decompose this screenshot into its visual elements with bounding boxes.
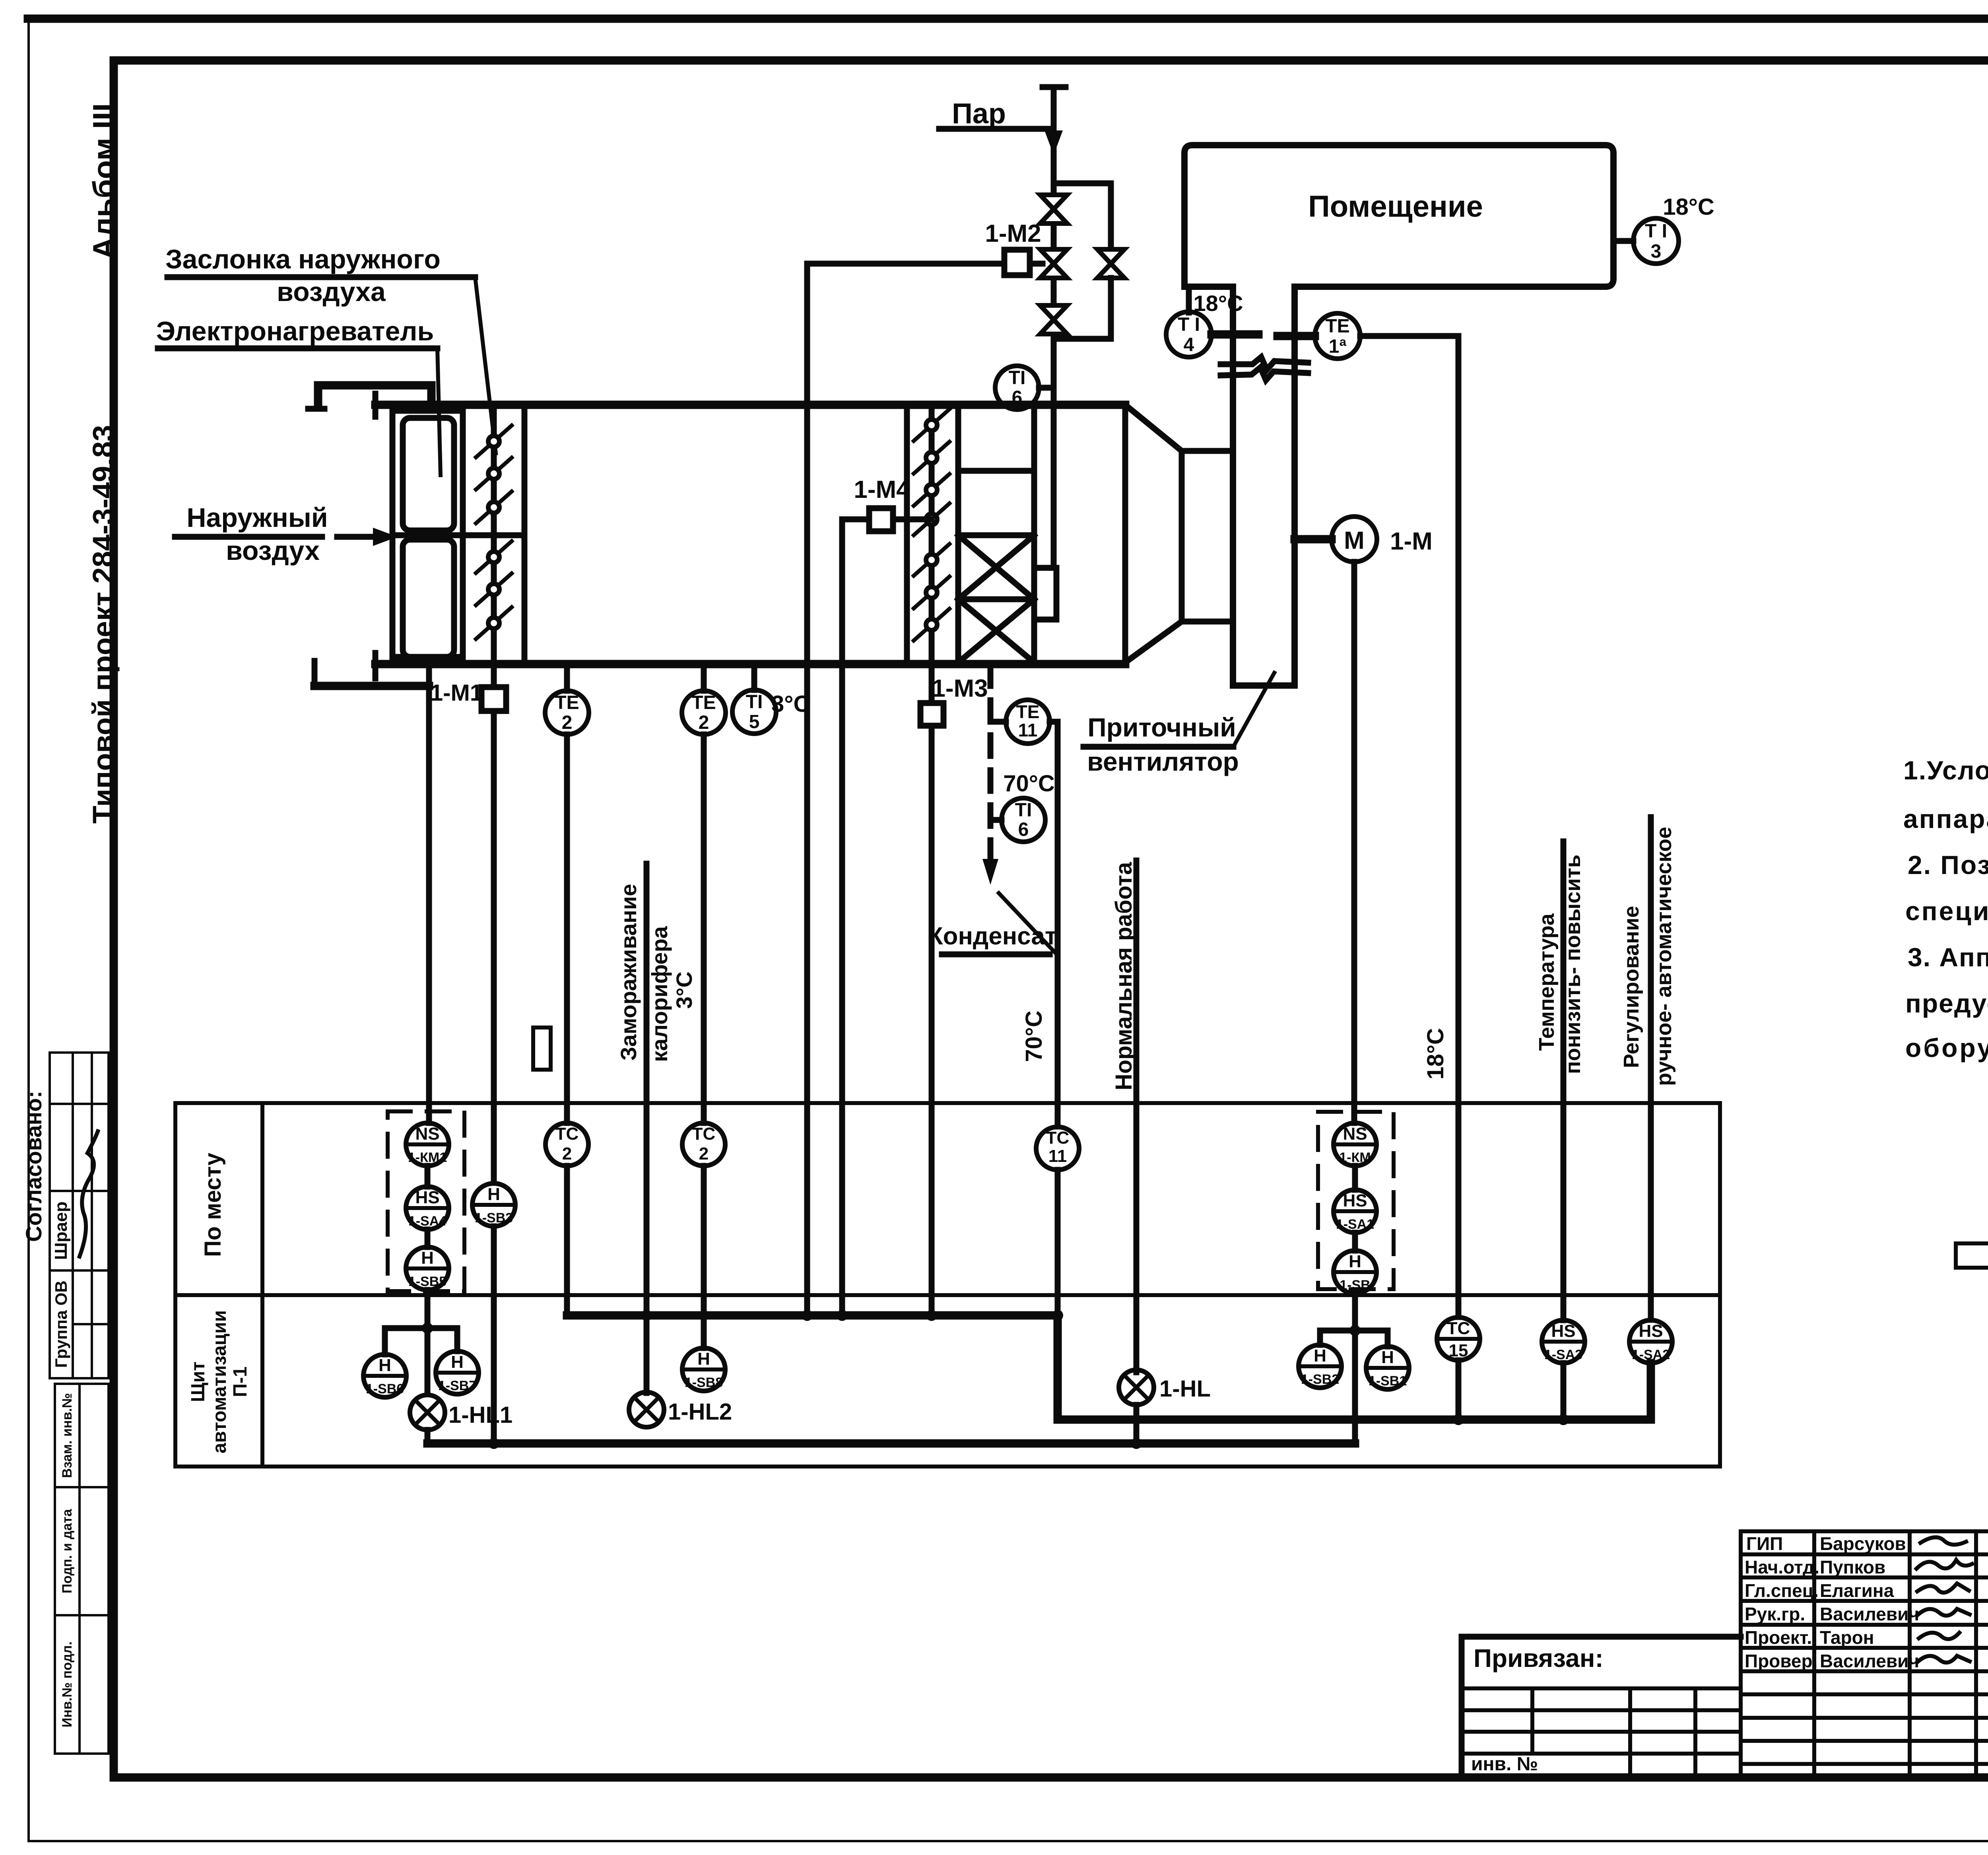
TE-1a probe into duct [1277,332,1315,340]
svg-text:Альбом III: Альбом III [86,103,121,259]
svg-text:2: 2 [562,1144,572,1164]
damper 1 blades [476,425,512,639]
junction dot on control bus [641,1310,652,1321]
bottom flexible connector bracket [315,682,429,690]
svg-text:H: H [421,1248,434,1268]
steam coil crossed box [958,535,1034,662]
placeholder box (filled on project binding) [533,1028,551,1070]
svg-text:5: 5 [749,711,760,732]
thermometer TI-6 (condensate) [990,817,1002,823]
svg-text:T I: T I [1178,314,1200,335]
starter NS 1-KM1 [406,1123,449,1166]
bypass valve [1097,249,1124,278]
sensor TE-2 (freeze protection) [564,664,570,691]
svg-text:1-HL1: 1-HL1 [448,1402,513,1428]
svg-text:спецификации А-С01.: спецификации А-С01. [1905,896,1988,926]
actuator box 1-M2 [1004,250,1030,275]
svg-text:Барсуков: Барсуков [1820,1533,1906,1554]
svg-text:HS: HS [415,1188,439,1207]
label line Температура понизить-повысить [1561,841,1567,1320]
svg-text:TC: TC [692,1124,716,1144]
wire motor to panel [1351,562,1357,1123]
svg-text:Нач.отд.: Нач.отд. [1745,1557,1819,1577]
wire down from 1-SB5 [425,1290,431,1394]
dashed group box 1-KM1 [388,1111,464,1291]
svg-text:2: 2 [562,712,573,733]
margin approval table row lines [50,1103,109,1105]
outdoor air flow arrow [337,534,382,540]
svg-text:Согласовано:: Согласовано: [21,1091,46,1242]
steam coil nozzles [1034,565,1056,571]
switch H 1-SB3 [472,1183,515,1226]
svg-text:H: H [1381,1348,1394,1367]
steam coil right edge [1031,405,1037,662]
label line Замораживание калорифера 3°C [644,864,650,1393]
filter shelf line above steam coil [958,468,1034,474]
lamp 1-HL2 [629,1392,664,1427]
svg-text:1-SB3: 1-SB3 [475,1210,513,1226]
fan motor M 1-M [1295,535,1332,544]
svg-text:1-КМ: 1-КМ [1339,1150,1371,1165]
svg-text:Инв.№ подл.: Инв.№ подл. [60,1641,75,1727]
svg-text:T I: T I [1645,221,1667,242]
svg-text:Регулирование: Регулирование [1619,906,1643,1068]
button H 1-SB8 [682,1348,725,1391]
svg-text:1-SA2: 1-SA2 [1632,1347,1670,1362]
svg-text:1.Условные обозначения приборо: 1.Условные обозначения приборов и электр… [1903,756,1988,785]
svg-text:ручное- автоматическое: ручное- автоматическое [1652,827,1676,1086]
damper 1 section right edge [522,405,528,664]
control bus [567,1315,1651,1420]
svg-text:HS: HS [1551,1321,1575,1341]
svg-text:Заслонка наружного: Заслонка наружного [165,244,441,274]
svg-text:TC: TC [1046,1128,1070,1148]
steam bypass line [1054,181,1111,186]
button H 1-SB6 [363,1354,406,1397]
hand valve V1 [1040,195,1067,223]
svg-text:Провер.: Провер. [1745,1651,1817,1671]
svg-text:TC: TC [555,1124,579,1144]
wire lamp to bottom bus [425,1430,431,1443]
thermometer TI-3 [1613,238,1633,244]
svg-text:Приточный: Приточный [1087,713,1236,742]
sensor TE-2 (3°C) [701,664,707,691]
junction node [422,1323,433,1334]
heater element lower [403,540,454,657]
svg-text:3°C: 3°C [771,691,810,717]
svg-text:Привязан:: Привязан: [1474,1644,1604,1672]
damper actuator 1-M4 [869,508,893,531]
switch TC-15 [1437,1317,1480,1360]
branch to buttons 1-SB2 1-SB1 [1320,1328,1388,1334]
svg-text:1-HL: 1-HL [1159,1376,1211,1402]
label line Нормальная работа [1134,860,1140,1372]
svg-text:1-SB8: 1-SB8 [685,1375,723,1390]
steam pipe [1051,87,1057,568]
svg-text:Рук.гр.: Рук.гр. [1745,1604,1805,1624]
svg-text:TE: TE [1325,316,1349,337]
wire 1-M1 to panel [491,711,497,1183]
svg-text:Замораживание: Замораживание [616,884,641,1061]
svg-text:ГИП: ГИП [1746,1533,1783,1554]
svg-text:1ª: 1ª [1329,336,1347,357]
damper 1 shaft [491,411,497,657]
svg-text:18°C: 18°C [1663,194,1714,220]
svg-text:оборудования: оборудования [1905,1033,1988,1062]
svg-text:70°C: 70°C [1003,771,1055,796]
sensor TE-1a [1315,313,1360,359]
svg-text:1-SB6: 1-SB6 [366,1381,404,1397]
svg-text:1-SB: 1-SB [1340,1278,1370,1293]
TI-4 probe into duct [1211,330,1258,339]
recirculation damper section edges [904,405,910,664]
hand valve V3 [1040,305,1067,334]
thermometer TI-4 [1186,287,1192,313]
switch HS 1-SA2 [1629,1320,1672,1363]
top flexible connector bracket [318,381,431,390]
svg-text:Группа ОВ: Группа ОВ [52,1280,70,1367]
sheet outer border top [28,15,1988,23]
wire 1-M3 to panel [929,726,935,1315]
svg-text:1-КМ1: 1-КМ1 [408,1150,447,1165]
svg-text:Щит: Щит [188,1362,209,1402]
svg-text:Тарон: Тарон [1820,1627,1874,1648]
svg-text:3: 3 [1651,241,1662,262]
svg-text:Типовой проект 284-3-49.83: Типовой проект 284-3-49.83 [87,425,120,824]
switch HS 1-SA1 [1334,1190,1376,1233]
svg-text:Подп. и дата: Подп. и дата [60,1509,75,1593]
svg-text:1-SB1: 1-SB1 [1369,1373,1407,1389]
switch HS 1-SA4 [406,1187,449,1230]
svg-text:1-HL2: 1-HL2 [668,1399,732,1425]
svg-text:18°C: 18°C [1193,291,1243,316]
steam flow arrow [1044,130,1063,155]
svg-text:1-SA4: 1-SA4 [408,1214,447,1229]
leader to electric heater [437,348,441,475]
svg-text:Елагина: Елагина [1820,1580,1894,1601]
svg-text:TE: TE [555,692,579,713]
svg-text:TI: TI [746,691,763,713]
heater section mid line [392,532,524,538]
svg-text:11: 11 [1048,1146,1067,1166]
svg-text:Температура: Температура [1535,913,1559,1051]
heater section box [392,411,463,657]
margin approval signature squiggle [80,1131,98,1257]
wire 1-M2 to panel [807,261,1004,267]
svg-text:инв. №: инв. № [1471,1754,1538,1775]
leader to fan [1233,673,1274,747]
svg-text:HS: HS [1639,1321,1663,1341]
svg-text:TI: TI [1009,367,1026,388]
notes text [1903,756,1988,1062]
svg-text:Взам. инв.№: Взам. инв.№ [60,1393,75,1478]
signature table [1741,1531,1988,1777]
svg-text:1-М3: 1-М3 [932,675,988,702]
wire casing to NS column [426,664,432,686]
svg-text:1-SA3: 1-SA3 [1544,1347,1582,1362]
svg-text:H: H [451,1352,464,1372]
svg-text:1-М1: 1-М1 [430,680,483,706]
inner drawing frame left [110,60,118,1777]
button H 1-SB2 [1299,1345,1342,1388]
signature squiggles [1916,1537,1972,1663]
svg-text:2: 2 [699,712,709,733]
damper 2 shaft [929,405,935,657]
wire TC-2 to control bus [564,1166,570,1315]
svg-text:HS: HS [1343,1191,1367,1210]
svg-text:автоматизации: автоматизации [209,1310,230,1453]
heater element upper [403,418,454,530]
svg-text:Пар: Пар [952,98,1006,130]
svg-text:H: H [379,1356,391,1375]
control valve with actuator 1-M2 [1040,249,1067,278]
svg-text:1-M: 1-M [1390,528,1433,555]
AHU right wall [1122,405,1128,664]
signature table texts [1745,1533,1919,1671]
svg-text:аппаратуры даны по ОСТ 36-2: аппаратуры даны по ОСТ 36-27-77. [1903,804,1988,833]
svg-text:4: 4 [1184,334,1194,355]
switch TC-11 [1036,1127,1079,1170]
svg-text:калорифера: калорифера [647,926,672,1062]
bottom bus (supply) [427,1439,1355,1448]
wire down from 1-SB [1352,1294,1358,1443]
margin lower table divider [78,1384,81,1754]
svg-text:1-М4: 1-М4 [854,476,910,503]
supply fan casing and riser duct [1230,287,1236,686]
svg-text:Электронагреватель: Электронагреватель [156,316,434,346]
svg-text:воздух: воздух [226,536,320,566]
margin lower table box [55,1384,109,1754]
legend placeholder symbol [1956,1243,1988,1268]
svg-text:NS: NS [1343,1124,1367,1144]
svg-text:понизить- повысить: понизить- повысить [1561,855,1585,1074]
button H 1-SB [1334,1251,1376,1294]
svg-text:воздуха: воздуха [277,277,386,307]
svg-text:6: 6 [1012,387,1023,408]
thermometer TI-5 [751,664,757,690]
svg-text:6: 6 [1018,819,1029,840]
svg-text:предусматривается в разделе: предусматривается в разделе электро- [1905,989,1988,1018]
duct break symbol [1221,357,1308,370]
wire TE-2 to TC-2 [564,734,570,1123]
wire TE-11 to TC-11 [1050,719,1058,725]
svg-text:Василевич: Василевич [1820,1604,1919,1624]
button H 1-SB5 [406,1247,449,1290]
switch HS 1-SA3 [1542,1320,1585,1363]
sensor TE-11 [990,719,1006,725]
svg-text:TE: TE [1016,701,1040,722]
wire 1-SB3 to bottom bus [491,1226,497,1443]
panel row divider [175,1293,1720,1297]
wire 1-M4 to panel [842,517,869,523]
svg-text:Пупков: Пупков [1820,1557,1885,1577]
svg-text:По месту: По месту [200,1153,226,1257]
svg-text:18°C: 18°C [1423,1028,1448,1080]
automation panel box [175,1103,1720,1467]
inner drawing frame bottom [114,1773,1988,1782]
svg-text:Помещение: Помещение [1308,190,1483,223]
svg-text:H: H [1349,1252,1361,1271]
condensate capillary dashed line [988,665,994,873]
svg-text:1-SA1: 1-SA1 [1336,1217,1374,1232]
sheet outer border bottom [29,1840,1988,1842]
button H 1-SB7 [436,1351,479,1394]
fan inlet transition [1125,405,1182,451]
AHU top casing line [375,401,1125,409]
button H 1-SB1 [1366,1346,1409,1389]
leader to outdoor air damper [475,277,496,453]
privyazan box [1462,1634,1741,1640]
svg-text:2: 2 [699,1144,709,1164]
svg-text:H: H [487,1185,500,1204]
svg-text:11: 11 [1018,720,1038,740]
switch TC-2 (3°C) [682,1123,725,1166]
switch TC-2 (freeze) [546,1123,588,1166]
damper 2 blades [914,409,949,641]
svg-text:Шраер: Шраер [51,1202,71,1260]
svg-text:2. Позиции приборов указаны: 2. Позиции приборов указаны по [1908,850,1988,880]
svg-text:Гл.спец.: Гл.спец. [1745,1580,1819,1601]
damper actuator 1-M1 [491,657,497,687]
sheet outer border left [27,19,30,1841]
margin lower table row lines [55,1486,109,1488]
branch to buttons 1-SB6 1-SB7 [385,1325,457,1331]
wire TE-1a to panel [1360,333,1458,339]
svg-text:вентилятор: вентилятор [1087,747,1239,776]
margin approval table column dividers [72,1053,74,1378]
svg-text:Василевич: Василевич [1820,1651,1919,1671]
svg-text:1-SB5: 1-SB5 [408,1274,447,1289]
svg-text:M: M [1344,527,1365,554]
svg-text:70°C: 70°C [1021,1010,1047,1062]
label line Регулирование ручное-автоматическое [1648,817,1654,1320]
damper actuator 1-M3 [929,657,935,703]
svg-text:1-М2: 1-М2 [985,220,1041,247]
svg-text:H: H [697,1349,710,1369]
lamp 1-HL [1119,1370,1154,1405]
AHU bottom casing line [375,660,1125,668]
svg-text:1-SB7: 1-SB7 [438,1378,476,1393]
room box Помещение [1184,145,1613,287]
inner drawing frame top [114,56,1988,65]
svg-text:П-1: П-1 [230,1366,251,1397]
wire TE-2 down [701,734,707,1123]
svg-text:TC: TC [1447,1319,1470,1338]
wire TC-2 to button 1-SB8 [701,1166,707,1348]
dashed group box 1-KM [1318,1112,1394,1289]
svg-text:Нормальная работа: Нормальная работа [1111,862,1137,1090]
privyazan sub-table [1462,1688,1741,1777]
starter NS 1-KM [1334,1123,1376,1166]
svg-text:TI: TI [1015,800,1032,821]
margin approval table box [50,1053,109,1378]
svg-text:TE: TE [691,692,716,713]
lamp 1-HL1 [410,1395,445,1430]
panel label column divider [260,1103,264,1467]
svg-text:1-SB2: 1-SB2 [1301,1372,1339,1387]
svg-text:3°C: 3°C [672,971,697,1009]
svg-text:Проект.: Проект. [1745,1627,1812,1648]
svg-text:H: H [1314,1346,1326,1366]
svg-text:NS: NS [415,1124,439,1144]
svg-text:Наружный: Наружный [186,503,328,533]
svg-text:3. Аппаратура, обведенная пун: 3. Аппаратура, обведенная пунктиром [1908,942,1988,972]
thermometer TI-6 on steam pipe [995,366,1039,410]
